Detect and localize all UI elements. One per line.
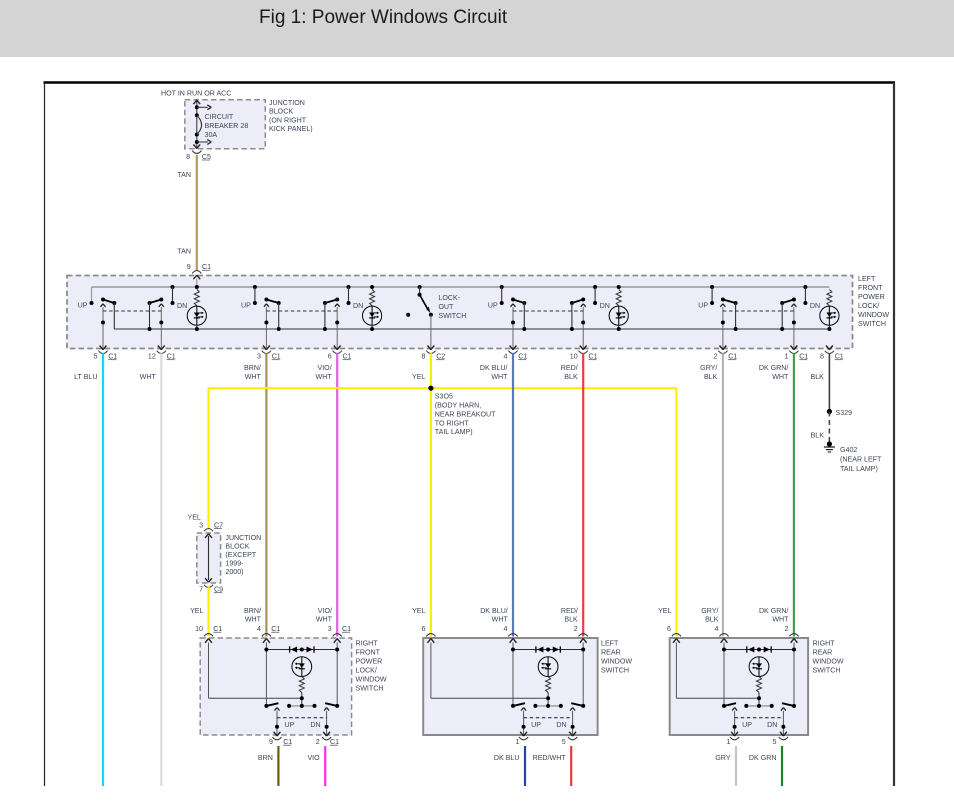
svg-text:NEAR BREAKOUT: NEAR BREAKOUT	[435, 410, 496, 418]
svg-text:TAN: TAN	[177, 248, 191, 256]
svg-text:WHT: WHT	[140, 373, 157, 381]
svg-text:WHT: WHT	[772, 373, 789, 381]
svg-text:YEL: YEL	[412, 373, 425, 381]
svg-text:C1: C1	[518, 353, 527, 361]
svg-text:DK GRN/: DK GRN/	[759, 364, 789, 372]
svg-text:LEFT: LEFT	[858, 275, 876, 283]
svg-text:2000): 2000)	[225, 568, 243, 576]
svg-text:BRN/: BRN/	[244, 364, 261, 372]
svg-text:C1: C1	[283, 738, 292, 746]
svg-text:1: 1	[516, 738, 520, 746]
svg-text:RIGHT: RIGHT	[813, 640, 836, 648]
svg-text:12: 12	[148, 353, 156, 361]
svg-text:8: 8	[186, 153, 190, 161]
svg-text:DK GRN/: DK GRN/	[759, 607, 789, 615]
svg-text:7: 7	[199, 586, 203, 594]
svg-text:C1: C1	[213, 625, 222, 633]
svg-text:BRN: BRN	[258, 754, 273, 762]
svg-text:5: 5	[94, 353, 98, 361]
svg-text:OUT: OUT	[438, 303, 454, 311]
svg-text:CIRCUIT: CIRCUIT	[205, 113, 234, 121]
svg-text:DN: DN	[600, 302, 610, 310]
svg-text:C5: C5	[202, 153, 211, 161]
svg-text:8: 8	[421, 353, 425, 361]
svg-text:JUNCTION: JUNCTION	[269, 99, 305, 107]
svg-text:C9: C9	[214, 586, 223, 594]
svg-text:SWITCH: SWITCH	[601, 667, 629, 675]
svg-text:DN: DN	[353, 302, 363, 310]
svg-text:C1: C1	[202, 263, 211, 271]
svg-text:POWER: POWER	[858, 293, 885, 301]
svg-text:SWITCH: SWITCH	[356, 685, 384, 693]
svg-text:C1: C1	[835, 353, 844, 361]
svg-text:GRY/: GRY/	[701, 607, 718, 615]
svg-text:C1: C1	[330, 738, 339, 746]
svg-text:YEL: YEL	[187, 514, 200, 522]
svg-text:C1: C1	[271, 625, 280, 633]
svg-text:C1: C1	[272, 353, 281, 361]
svg-text:RED/: RED/	[561, 607, 578, 615]
svg-text:SWITCH: SWITCH	[438, 312, 466, 320]
svg-text:LOCK/: LOCK/	[858, 302, 879, 310]
svg-text:DN: DN	[767, 721, 777, 729]
svg-text:BLK: BLK	[705, 616, 719, 624]
svg-text:DN: DN	[556, 721, 566, 729]
svg-text:4: 4	[504, 353, 508, 361]
svg-text:UP: UP	[285, 721, 295, 729]
svg-text:1: 1	[784, 353, 788, 361]
svg-text:TO RIGHT: TO RIGHT	[435, 419, 469, 427]
svg-text:G402: G402	[840, 446, 857, 454]
svg-text:REAR: REAR	[601, 649, 621, 657]
svg-text:BRN/: BRN/	[244, 607, 261, 615]
svg-text:4: 4	[715, 625, 719, 633]
svg-text:(NEAR LEFT: (NEAR LEFT	[840, 456, 882, 464]
svg-text:2: 2	[713, 353, 717, 361]
svg-text:(BODY HARN,: (BODY HARN,	[435, 402, 481, 410]
svg-text:1999-: 1999-	[225, 559, 244, 567]
svg-text:UP: UP	[531, 721, 541, 729]
svg-text:UP: UP	[241, 302, 251, 310]
svg-text:DN: DN	[310, 721, 320, 729]
svg-text:DN: DN	[810, 302, 820, 310]
svg-text:VIO/: VIO/	[318, 607, 332, 615]
svg-text:YEL: YEL	[658, 607, 671, 615]
svg-text:WINDOW: WINDOW	[858, 311, 889, 319]
svg-text:LT BLU: LT BLU	[74, 373, 97, 381]
svg-text:10: 10	[195, 625, 203, 633]
svg-text:BLK: BLK	[564, 373, 578, 381]
svg-text:DN: DN	[177, 302, 187, 310]
svg-text:HOT IN RUN OR ACC: HOT IN RUN OR ACC	[161, 89, 231, 97]
svg-text:KICK PANEL): KICK PANEL)	[269, 125, 313, 133]
svg-text:2: 2	[316, 738, 320, 746]
svg-text:RED/: RED/	[561, 364, 578, 372]
svg-text:UP: UP	[698, 302, 708, 310]
svg-text:DK BLU/: DK BLU/	[480, 607, 508, 615]
svg-text:WHT: WHT	[492, 616, 509, 624]
svg-text:UP: UP	[78, 302, 88, 310]
svg-text:JUNCTION: JUNCTION	[225, 534, 261, 542]
svg-text:C7: C7	[214, 522, 223, 530]
svg-text:GRY: GRY	[715, 754, 731, 762]
svg-text:WHT: WHT	[316, 373, 333, 381]
svg-text:REAR: REAR	[813, 649, 833, 657]
svg-text:9: 9	[269, 738, 273, 746]
svg-text:WHT: WHT	[772, 616, 789, 624]
svg-text:DK BLU: DK BLU	[494, 754, 520, 762]
svg-text:3: 3	[199, 522, 203, 530]
svg-text:FRONT: FRONT	[858, 284, 883, 292]
svg-text:(EXCEPT: (EXCEPT	[225, 551, 256, 559]
svg-text:3: 3	[257, 353, 261, 361]
svg-text:C1: C1	[342, 625, 351, 633]
svg-text:SWITCH: SWITCH	[858, 320, 886, 328]
svg-text:S3O5: S3O5	[435, 393, 453, 401]
svg-text:LOCK-: LOCK-	[438, 294, 460, 302]
svg-text:FRONT: FRONT	[356, 649, 381, 657]
svg-text:C1: C1	[799, 353, 808, 361]
svg-text:YEL: YEL	[412, 607, 425, 615]
svg-text:GRY/: GRY/	[700, 364, 717, 372]
svg-text:RIGHT: RIGHT	[356, 640, 379, 648]
svg-text:BREAKER 28: BREAKER 28	[205, 122, 249, 130]
svg-text:1: 1	[727, 738, 731, 746]
svg-text:BLOCK: BLOCK	[269, 108, 293, 116]
svg-text:C1: C1	[343, 353, 352, 361]
svg-text:SWITCH: SWITCH	[813, 667, 841, 675]
svg-text:TAIL LAMP): TAIL LAMP)	[840, 465, 878, 473]
svg-text:VIO/: VIO/	[317, 364, 331, 372]
svg-text:30A: 30A	[205, 131, 218, 139]
svg-text:10: 10	[570, 353, 578, 361]
svg-text:S329: S329	[836, 409, 853, 417]
svg-text:UP: UP	[742, 721, 752, 729]
svg-text:WHT: WHT	[245, 373, 262, 381]
svg-text:C1: C1	[167, 353, 176, 361]
svg-text:C2: C2	[436, 353, 445, 361]
svg-text:LEFT: LEFT	[601, 640, 619, 648]
svg-text:BLOCK: BLOCK	[225, 542, 249, 550]
svg-text:C1: C1	[728, 353, 737, 361]
svg-text:4: 4	[257, 625, 261, 633]
svg-text:TAIL LAMP): TAIL LAMP)	[435, 428, 473, 436]
svg-text:3: 3	[328, 625, 332, 633]
svg-text:5: 5	[562, 738, 566, 746]
svg-text:BLK: BLK	[811, 432, 825, 440]
svg-text:UP: UP	[488, 302, 498, 310]
svg-text:WHT: WHT	[316, 616, 333, 624]
svg-text:5: 5	[773, 738, 777, 746]
svg-text:BLK: BLK	[564, 616, 578, 624]
svg-text:WHT: WHT	[245, 616, 262, 624]
svg-text:9: 9	[187, 263, 191, 271]
svg-text:RED/WHT: RED/WHT	[533, 754, 567, 762]
svg-text:BLK: BLK	[810, 373, 824, 381]
svg-text:4: 4	[504, 625, 508, 633]
svg-text:6: 6	[667, 625, 671, 633]
svg-text:WINDOW: WINDOW	[813, 658, 844, 666]
svg-text:C1: C1	[108, 353, 117, 361]
svg-text:(ON RIGHT: (ON RIGHT	[269, 116, 307, 124]
svg-text:BLK: BLK	[704, 373, 718, 381]
svg-text:DK BLU/: DK BLU/	[480, 364, 508, 372]
svg-text:VIO: VIO	[307, 754, 320, 762]
svg-text:6: 6	[421, 625, 425, 633]
svg-text:WINDOW: WINDOW	[356, 676, 387, 684]
svg-text:2: 2	[574, 625, 578, 633]
svg-text:WINDOW: WINDOW	[601, 658, 632, 666]
svg-text:6: 6	[328, 353, 332, 361]
svg-text:LOCK/: LOCK/	[356, 667, 377, 675]
svg-text:POWER: POWER	[356, 658, 383, 666]
svg-text:C1: C1	[589, 353, 598, 361]
svg-text:WHT: WHT	[491, 373, 508, 381]
svg-text:DK GRN: DK GRN	[749, 754, 777, 762]
svg-text:8: 8	[820, 353, 824, 361]
svg-text:2: 2	[785, 625, 789, 633]
svg-text:YEL: YEL	[190, 607, 203, 615]
svg-text:TAN: TAN	[177, 171, 191, 179]
